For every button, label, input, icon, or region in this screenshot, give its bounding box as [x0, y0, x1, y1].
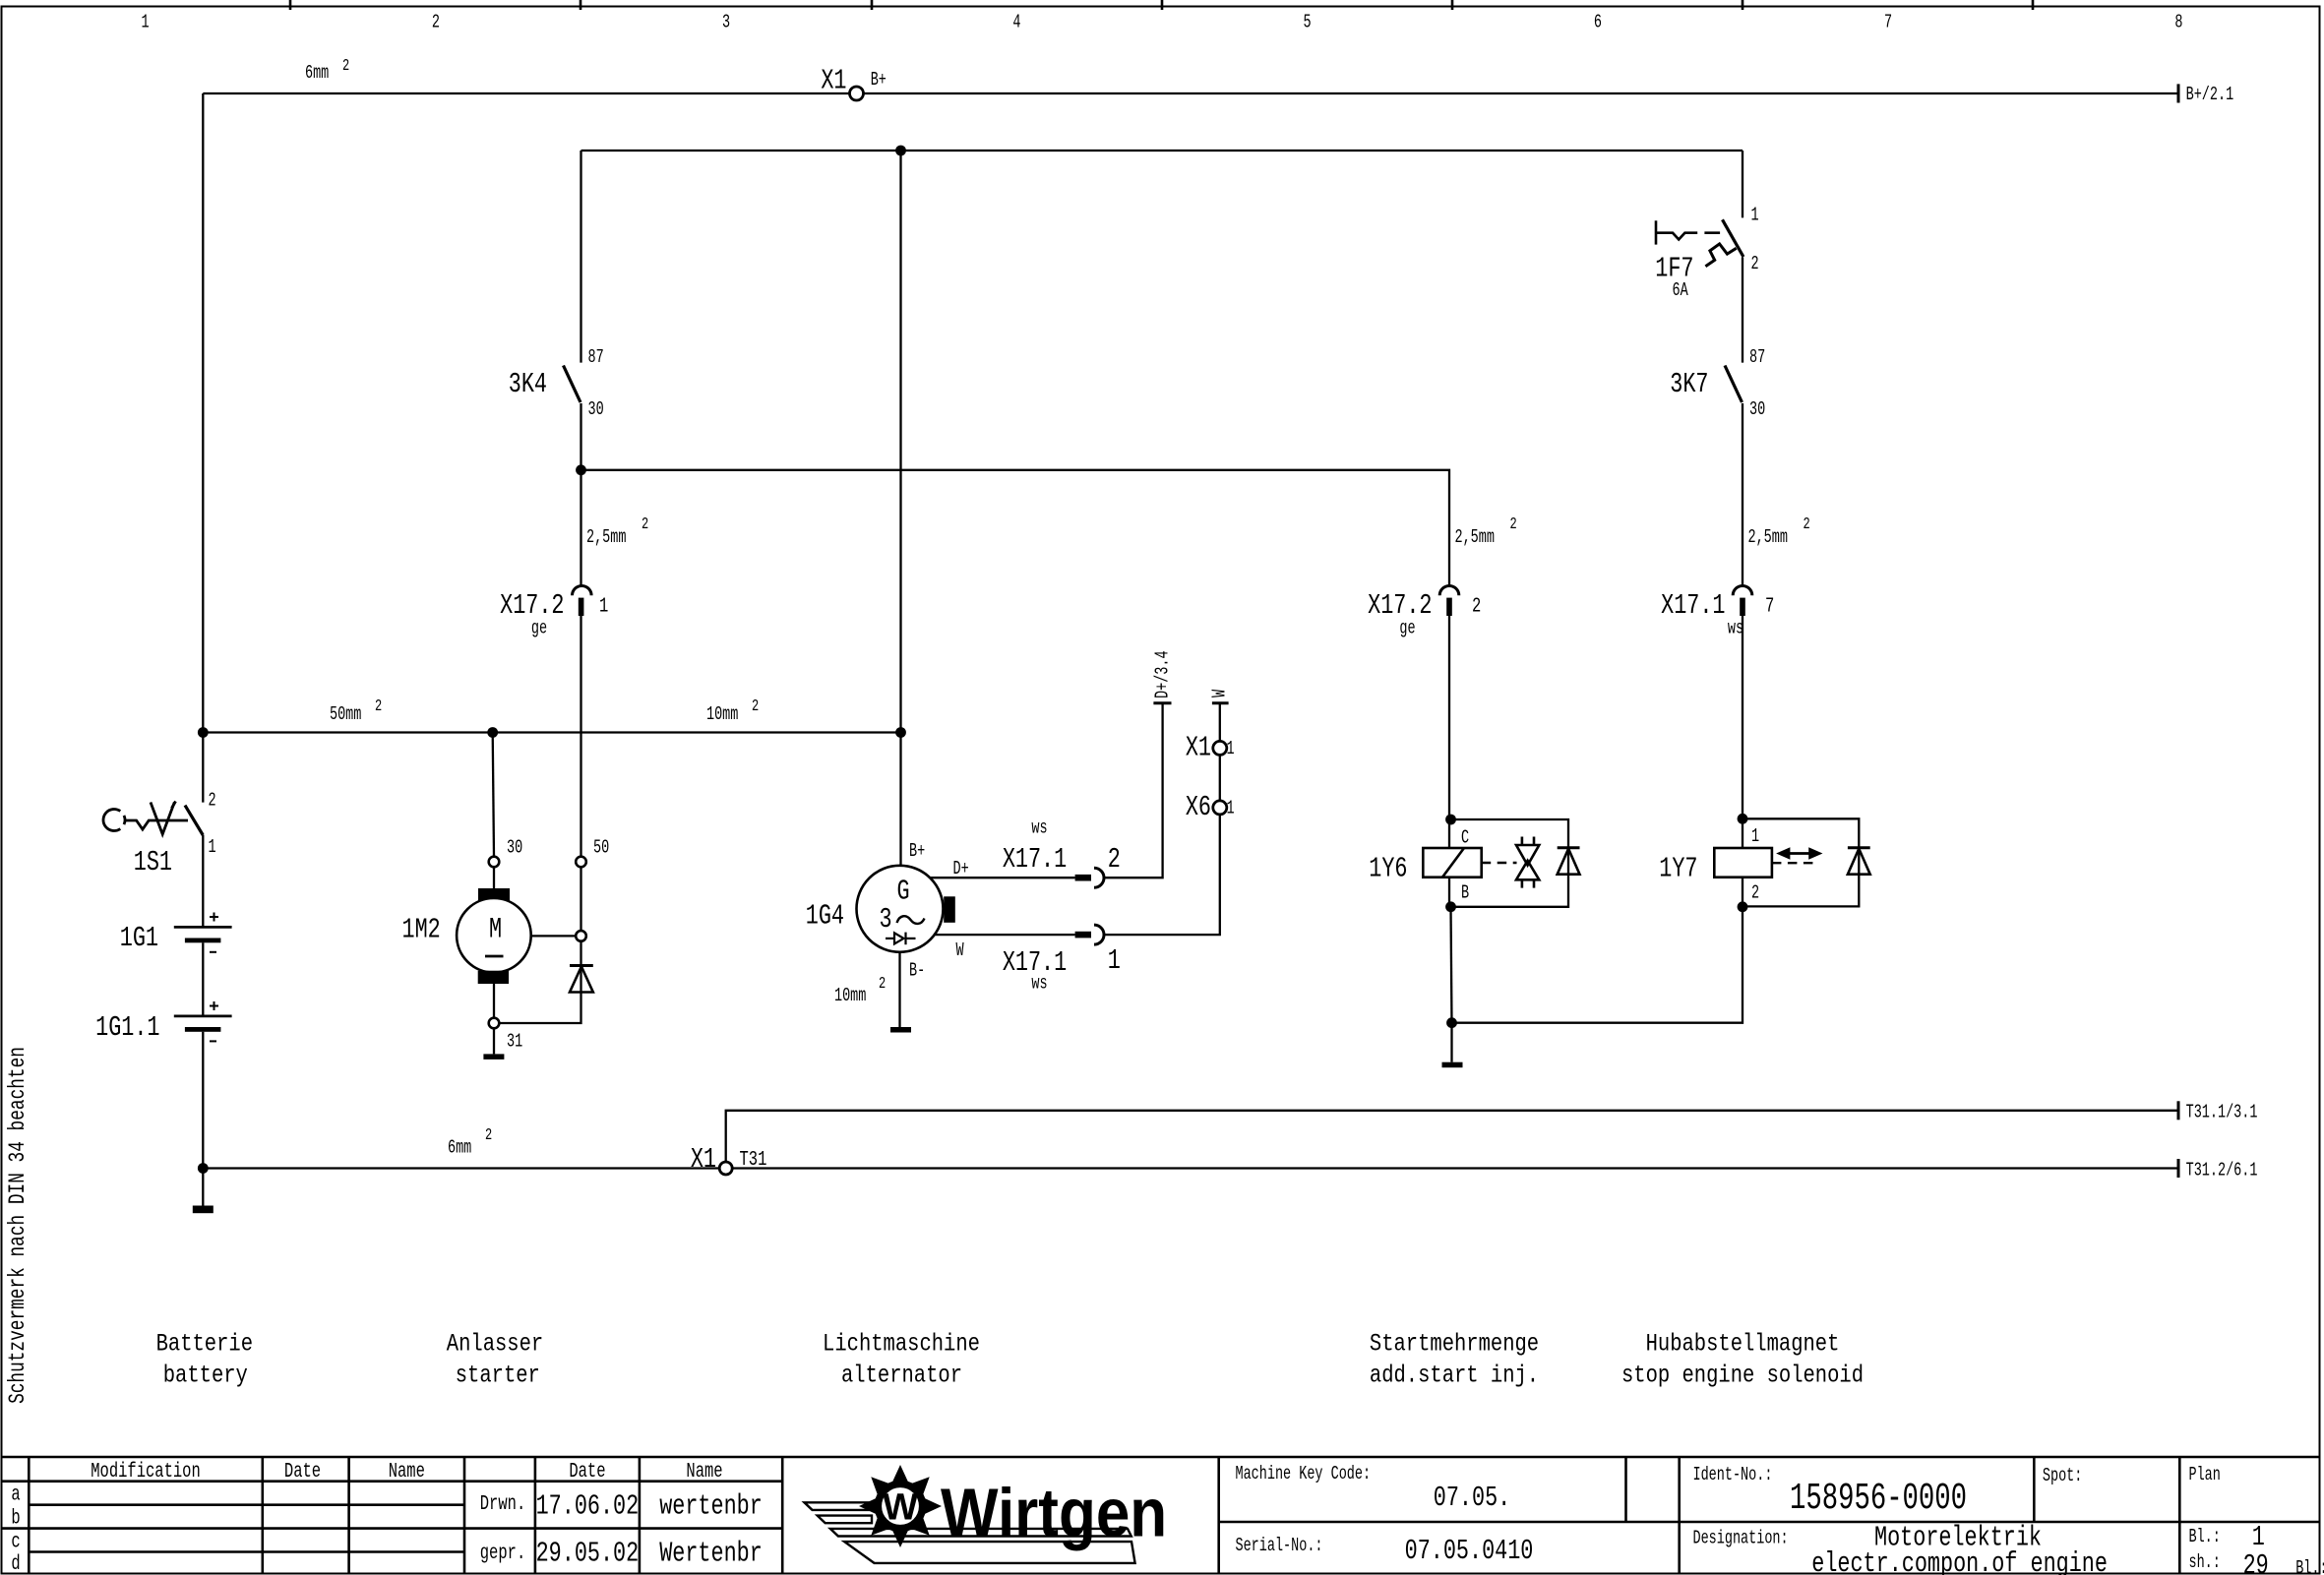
svg-text:Lichtmaschine: Lichtmaschine [823, 1330, 980, 1358]
svg-text:2: 2 [342, 57, 349, 76]
diode (1Y6 flyback) [1558, 848, 1580, 875]
solenoid 1Y7 (stop engine) [1659, 825, 1772, 903]
switch 1S1 (battery master switch) [103, 802, 203, 836]
wire: X17.2 pin1 down to starter 50 terminal [580, 616, 581, 857]
connector X17.2 pin 1 [500, 585, 608, 638]
svg-text:1: 1 [142, 11, 150, 32]
svg-text:Wertenbr: Wertenbr [659, 1538, 763, 1570]
svg-text:G: G [896, 876, 909, 908]
svg-text:Wirtgen: Wirtgen [941, 1474, 1167, 1550]
svg-text:31: 31 [507, 1030, 522, 1052]
svg-text:1: 1 [1227, 738, 1235, 759]
svg-text:starter: starter [456, 1362, 540, 1389]
svg-text:2: 2 [1510, 515, 1517, 534]
svg-text:Ident-No.:: Ident-No.: [1693, 1464, 1773, 1485]
svg-text:6mm: 6mm [448, 1136, 471, 1158]
connector X17.1 pin 1 [1003, 925, 1121, 994]
svg-text:D+/3.4: D+/3.4 [1151, 650, 1173, 698]
wire: T31 bus (6mm2) [203, 1159, 2178, 1178]
svg-text:1G1: 1G1 [120, 922, 158, 954]
junction: 3K4 column / wire to 1Y6 [576, 464, 586, 475]
svg-text:2: 2 [485, 1126, 492, 1145]
wire: 1Y6 bottom to ground junction [1451, 907, 1452, 1023]
junction: 1Y6/1Y7 ground node [1446, 1017, 1457, 1028]
caption Startmehrmenge/add.start inj. [1370, 1330, 1539, 1389]
svg-text:Date: Date [569, 1459, 605, 1484]
svg-text:Plan: Plan [2189, 1464, 2221, 1485]
svg-text:B-: B- [909, 959, 925, 981]
svg-text:1Y6: 1Y6 [1369, 853, 1407, 885]
wire: X17.2 pin2 down to 1Y6 [1448, 616, 1450, 848]
svg-text:Anlasser: Anlasser [447, 1330, 543, 1358]
wire: 3K4 column vertical (upper) [580, 151, 581, 587]
svg-text:Batterie: Batterie [156, 1330, 253, 1358]
wire: 1F7/3K7 column vertical [1742, 151, 1743, 587]
junction: bus / starter vertical [487, 727, 498, 738]
svg-text:ws: ws [1728, 617, 1743, 638]
wire: W from alternator to connector [935, 934, 1075, 936]
svg-text:2: 2 [642, 515, 648, 534]
svg-text:3: 3 [722, 11, 730, 32]
svg-text:Drwn.: Drwn. [480, 1491, 525, 1516]
ground (starter) [483, 1054, 504, 1060]
svg-text:Modification: Modification [91, 1459, 201, 1484]
svg-text:1: 1 [599, 593, 608, 618]
svg-text:T31.1/3.1: T31.1/3.1 [2186, 1101, 2258, 1122]
connector X17.1 pin 7 [1661, 585, 1774, 638]
svg-text:T31.2/6.1: T31.2/6.1 [2186, 1159, 2258, 1181]
wire size label 6mm2 (bottom) [448, 1126, 492, 1158]
wire: 1Y6 outer loop [1449, 819, 1568, 907]
svg-text:X17.1: X17.1 [1661, 589, 1725, 622]
svg-text:d: d [11, 1551, 20, 1575]
terminal X1 pin 1 [1186, 732, 1235, 764]
svg-text:Machine Key Code:: Machine Key Code: [1236, 1463, 1372, 1484]
svg-text:1G4: 1G4 [806, 900, 844, 933]
wire size label 50mm2 [330, 697, 382, 725]
svg-text:3K7: 3K7 [1670, 368, 1708, 400]
svg-text:2: 2 [752, 697, 759, 716]
svg-text:1Y7: 1Y7 [1659, 853, 1697, 885]
dashed link 1Y6 to valve [1482, 862, 1517, 864]
svg-text:6: 6 [1594, 11, 1602, 32]
svg-text:2: 2 [1804, 515, 1810, 534]
junction: 1Y7 bottom [1738, 901, 1748, 912]
connector X17.2 pin 2 [1368, 585, 1481, 638]
svg-text:1: 1 [1751, 204, 1759, 225]
wire: W wire up to X1/X6 terminals [1104, 703, 1220, 935]
svg-text:D+: D+ [953, 858, 969, 879]
svg-text:battery: battery [163, 1362, 248, 1389]
svg-text:1S1: 1S1 [134, 846, 172, 878]
caption Anlasser/starter [447, 1330, 543, 1389]
terminal X6 pin 1 [1186, 791, 1235, 823]
svg-text:50: 50 [593, 836, 609, 858]
svg-text:W: W [1208, 690, 1230, 697]
svg-text:T31: T31 [740, 1147, 767, 1172]
svg-text:alternator: alternator [841, 1362, 962, 1389]
wire: ground rail from 1Y7 [1452, 907, 1743, 1023]
svg-text:1G1.1: 1G1.1 [95, 1011, 159, 1044]
svg-text:Date: Date [284, 1459, 321, 1484]
svg-text:07.05.0410: 07.05.0410 [1405, 1535, 1534, 1567]
battery 1G1.1 [95, 1001, 231, 1044]
svg-text:1: 1 [1108, 944, 1121, 977]
svg-text:C: C [1461, 826, 1469, 848]
svg-text:1: 1 [1751, 825, 1759, 847]
wire size label 6mm2 (top) [305, 57, 349, 84]
svg-text:87: 87 [588, 346, 604, 368]
relay contact 3K4 [509, 346, 604, 420]
svg-text:2: 2 [1472, 593, 1481, 618]
wire: rail at y=153 from 3K4 column to 1F7 column [581, 150, 1743, 151]
svg-text:B+: B+ [909, 840, 925, 862]
svg-text:a: a [11, 1482, 20, 1506]
svg-text:ge: ge [1399, 617, 1415, 638]
svg-text:1M2: 1M2 [402, 914, 441, 946]
junction: 1Y6 top [1445, 815, 1456, 825]
svg-text:1: 1 [1227, 797, 1235, 818]
ground (alternator) [890, 1027, 911, 1033]
junction: battery vertical / T31 bus [198, 1163, 209, 1174]
junction: battery vertical / 50mm2 bus [198, 727, 209, 738]
svg-text:2: 2 [1751, 881, 1759, 903]
junction: bus / alternator vertical [895, 727, 906, 738]
connector X17.1 pin 2 [1003, 817, 1121, 887]
caption Lichtmaschine/alternator [823, 1330, 980, 1389]
svg-text:2,5mm: 2,5mm [1455, 526, 1496, 548]
svg-text:10mm: 10mm [834, 985, 866, 1006]
ground (1Y6/1Y7) [1442, 1062, 1463, 1068]
dashed link 1Y7 [1772, 862, 1818, 864]
ground (battery) [193, 1206, 214, 1214]
svg-text:ws: ws [1031, 972, 1047, 994]
svg-text:3K4: 3K4 [509, 368, 547, 400]
wire size label 10mm2 (alternator) [834, 975, 886, 1006]
svg-text:2: 2 [879, 975, 886, 994]
alternator 1G4 [806, 840, 955, 981]
diode (1Y7 flyback) [1848, 848, 1870, 875]
wire: T31.1 branch [726, 1111, 2178, 1162]
diode (starter suppression) [570, 966, 593, 993]
svg-text:3: 3 [880, 903, 892, 936]
svg-text:2: 2 [1751, 253, 1759, 274]
svg-text:X1: X1 [691, 1143, 716, 1176]
wire: X17.1 pin7 down to 1Y7 [1742, 616, 1743, 848]
svg-text:W: W [883, 1487, 918, 1529]
svg-text:2: 2 [375, 697, 382, 716]
svg-text:Name: Name [389, 1459, 425, 1484]
svg-text:c: c [11, 1529, 20, 1553]
svg-text:gepr.: gepr. [480, 1541, 525, 1565]
svg-text:6mm: 6mm [305, 62, 329, 84]
terminal X1 T31 [691, 1143, 767, 1176]
svg-text:Serial-No.:: Serial-No.: [1236, 1535, 1323, 1556]
svg-text:X6: X6 [1186, 791, 1211, 823]
wire: main battery vertical (left column) [202, 93, 204, 1206]
svg-text:1: 1 [209, 836, 216, 858]
junction: 1Y6 bottom [1445, 901, 1456, 912]
svg-text:B+/2.1: B+/2.1 [2186, 84, 2234, 105]
svg-text:stop engine solenoid: stop engine solenoid [1621, 1362, 1864, 1389]
svg-text:10mm: 10mm [706, 703, 738, 725]
wire size label 10mm2 [706, 697, 759, 725]
junction: 1Y7 top [1738, 814, 1748, 824]
terminal circle on 50 column [576, 931, 586, 941]
svg-text:07.05.: 07.05. [1434, 1482, 1510, 1514]
wire size label 2,5mm2 (1Y6 column) [1455, 515, 1517, 548]
wire: alternator vertical [899, 151, 901, 867]
wire: 1Y7 outer loop [1743, 818, 1859, 907]
Wirtgen logo [805, 1465, 1168, 1563]
svg-text:Designation:: Designation: [1693, 1527, 1789, 1548]
wire size label 2,5mm2 (3K4 column) [586, 515, 648, 548]
svg-text:Spot:: Spot: [2043, 1465, 2082, 1486]
svg-text:2: 2 [1108, 843, 1121, 876]
svg-text:M: M [489, 912, 502, 945]
svg-text:2: 2 [432, 11, 440, 32]
svg-text:4: 4 [1012, 11, 1020, 32]
svg-text:158956-0000: 158956-0000 [1790, 1478, 1967, 1519]
svg-text:add.start inj.: add.start inj. [1370, 1362, 1539, 1389]
terminal X1 B+ [821, 65, 887, 100]
svg-text:Schutzvermerk nach DIN 34 beac: Schutzvermerk nach DIN 34 beachten [6, 1047, 31, 1404]
wire: 50mm2/10mm2 bus [203, 731, 900, 733]
wire: D+ to D+/3.4 reference [1104, 703, 1163, 878]
svg-text:Startmehrmenge: Startmehrmenge [1370, 1330, 1539, 1358]
svg-text:50mm: 50mm [330, 703, 361, 725]
svg-text:29.05.02: 29.05.02 [536, 1538, 640, 1570]
svg-text:2,5mm: 2,5mm [586, 526, 627, 548]
svg-text:W: W [956, 939, 964, 961]
svg-text:Hubabstellmagnet: Hubabstellmagnet [1646, 1330, 1840, 1358]
svg-text:B: B [1461, 881, 1469, 903]
wire: 50 column down to diode [580, 867, 581, 931]
svg-text:X1: X1 [821, 65, 846, 97]
wire: diode down, corner to terminal 31 [499, 993, 581, 1024]
svg-text:17.06.02: 17.06.02 [536, 1490, 640, 1523]
svg-text:b: b [11, 1505, 20, 1530]
svg-text:1: 1 [2252, 1521, 2265, 1553]
battery 1G1 [120, 913, 232, 954]
svg-text:Name: Name [686, 1459, 722, 1484]
wire: starter 31 to ground [493, 1028, 495, 1054]
svg-text:X17.1: X17.1 [1003, 843, 1067, 876]
circuit breaker 1F7 6A [1656, 219, 1743, 266]
svg-text:29: 29 [2243, 1549, 2269, 1575]
svg-text:X1: X1 [1186, 732, 1211, 764]
wire: starter field branch to 50 column [531, 935, 577, 937]
svg-text:B+: B+ [871, 69, 887, 91]
svg-text:2,5mm: 2,5mm [1748, 526, 1789, 548]
svg-text:ws: ws [1031, 817, 1047, 838]
wire size label 2,5mm2 (3K7 column) [1748, 515, 1810, 548]
svg-text:sh.:: sh.: [2189, 1551, 2221, 1573]
solenoid valve 1Y6 [1369, 826, 1481, 903]
wire: alternator B- to ground [898, 952, 900, 1027]
svg-text:electr.compon.of engine: electr.compon.of engine [1811, 1547, 2108, 1575]
wire: down to ground [1450, 1023, 1452, 1062]
svg-text:ge: ge [531, 617, 547, 638]
svg-text:8: 8 [2174, 11, 2182, 32]
svg-text:7: 7 [1884, 11, 1892, 32]
svg-text:Bl.:: Bl.: [2295, 1557, 2324, 1575]
svg-text:30: 30 [588, 398, 604, 420]
actuator double arrow [1780, 849, 1819, 857]
caption Batterie/battery [156, 1330, 253, 1389]
svg-text:7: 7 [1765, 593, 1774, 618]
svg-text:87: 87 [1749, 346, 1765, 368]
wire B+ rail (6mm2) from battery column to sheet edge [203, 84, 2178, 102]
svg-text:2: 2 [209, 789, 216, 811]
relay contact 3K7 [1670, 346, 1765, 420]
wire: D+ from alternator to connector [929, 877, 1074, 878]
svg-text:30: 30 [1749, 398, 1765, 420]
svg-text:6A: 6A [1673, 279, 1688, 301]
svg-text:Bl.:: Bl.: [2189, 1526, 2221, 1547]
junction: rail153 / alternator vertical [895, 146, 906, 156]
caption Hubabstellmagnet/stop engine solenoid [1621, 1330, 1864, 1389]
svg-text:5: 5 [1304, 11, 1312, 32]
wire: rail y=478 from 3K4 junction to 1Y6 column [581, 470, 1450, 587]
throttle valve symbol [1516, 837, 1539, 888]
starter motor 1M2 [402, 733, 610, 1053]
svg-text:wertenbr: wertenbr [659, 1490, 763, 1523]
svg-text:30: 30 [507, 836, 522, 858]
